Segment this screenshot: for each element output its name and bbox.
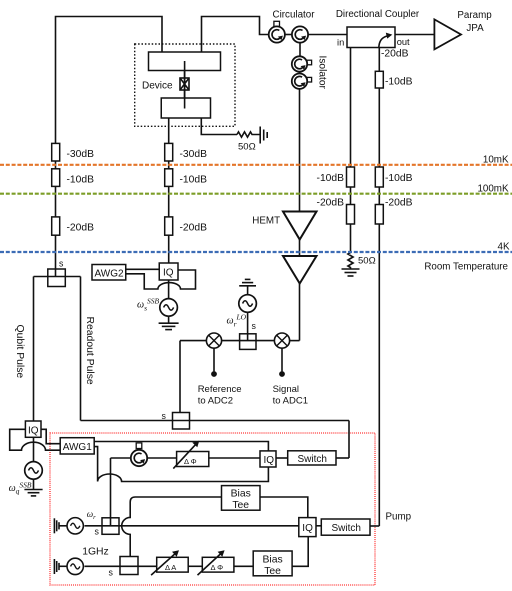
svg-text:Readout Pulse: Readout Pulse xyxy=(84,317,95,385)
svg-text:-20dB: -20dB xyxy=(381,48,409,59)
svg-text:Tee: Tee xyxy=(264,566,281,577)
svg-text:-20dB: -20dB xyxy=(67,223,95,234)
svg-text:Δ Α: Δ Α xyxy=(165,563,176,572)
svg-text:out: out xyxy=(397,37,410,47)
svg-text:Directional Coupler: Directional Coupler xyxy=(336,9,420,20)
svg-text:IQ: IQ xyxy=(28,426,39,437)
svg-text:Δ Φ: Δ Φ xyxy=(211,563,224,572)
svg-text:IQ: IQ xyxy=(163,268,174,279)
svg-text:Switch: Switch xyxy=(332,523,361,534)
svg-text:Paramp: Paramp xyxy=(457,10,492,21)
svg-text:Tee: Tee xyxy=(232,500,249,511)
svg-text:Pump: Pump xyxy=(386,512,412,523)
svg-text:Switch: Switch xyxy=(298,454,327,465)
svg-text:Bias: Bias xyxy=(231,488,251,499)
svg-text:Room Temperature: Room Temperature xyxy=(424,261,508,272)
svg-text:-30dB: -30dB xyxy=(67,149,95,160)
svg-text:4K: 4K xyxy=(498,242,510,253)
svg-text:s: s xyxy=(95,527,100,537)
svg-text:AWG2: AWG2 xyxy=(95,269,125,280)
svg-text:s: s xyxy=(252,321,257,331)
svg-text:1GHz: 1GHz xyxy=(82,547,109,558)
svg-text:-10dB: -10dB xyxy=(180,175,208,186)
svg-text:IQ: IQ xyxy=(302,523,313,534)
svg-text:s: s xyxy=(59,259,64,269)
svg-text:-20dB: -20dB xyxy=(180,223,208,234)
svg-text:in: in xyxy=(337,38,344,48)
svg-text:Signal: Signal xyxy=(273,384,299,395)
svg-text:s: s xyxy=(162,411,167,421)
svg-text:10mK: 10mK xyxy=(483,154,509,165)
svg-text:to ADC1: to ADC1 xyxy=(273,396,308,407)
svg-text:50Ω: 50Ω xyxy=(238,142,256,153)
svg-text:to ADC2: to ADC2 xyxy=(198,396,233,407)
svg-text:Isolator: Isolator xyxy=(317,56,328,90)
svg-text:-20dB: -20dB xyxy=(385,198,413,209)
svg-text:Circulator: Circulator xyxy=(273,10,316,21)
svg-text:-10dB: -10dB xyxy=(317,173,345,184)
svg-text:AWG1: AWG1 xyxy=(63,442,93,453)
svg-text:-10dB: -10dB xyxy=(385,77,413,88)
svg-text:-10dB: -10dB xyxy=(67,175,95,186)
svg-text:-10dB: -10dB xyxy=(385,173,413,184)
svg-text:Δ Φ: Δ Φ xyxy=(184,457,197,466)
svg-text:HEMT: HEMT xyxy=(252,216,280,227)
svg-text:Reference: Reference xyxy=(198,384,242,395)
svg-text:Qubit Pulse: Qubit Pulse xyxy=(14,325,25,379)
svg-text:JPA: JPA xyxy=(466,23,484,34)
svg-text:100mK: 100mK xyxy=(477,184,509,195)
svg-text:-20dB: -20dB xyxy=(317,198,345,209)
svg-text:Device: Device xyxy=(142,81,173,92)
svg-text:-30dB: -30dB xyxy=(180,149,208,160)
svg-text:Bias: Bias xyxy=(262,554,282,565)
svg-text:IQ: IQ xyxy=(264,455,275,466)
svg-text:50Ω: 50Ω xyxy=(358,256,376,267)
svg-text:s: s xyxy=(109,568,114,578)
